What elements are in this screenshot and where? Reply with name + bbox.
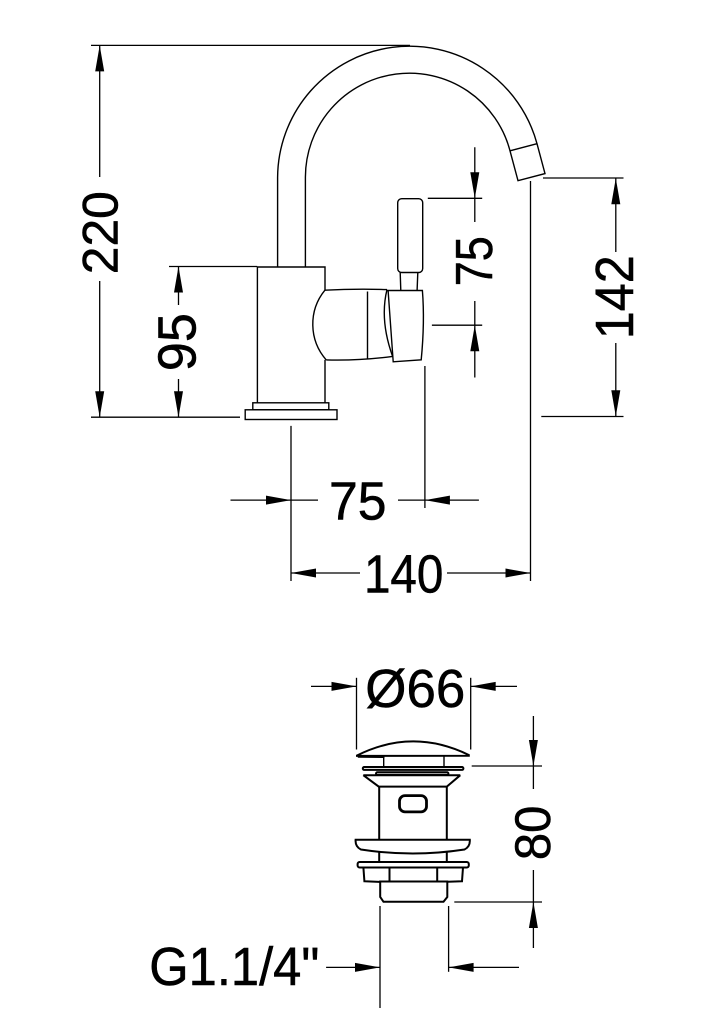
svg-text:140: 140	[364, 545, 444, 605]
svg-text:142: 142	[585, 255, 645, 339]
svg-text:75: 75	[329, 472, 387, 532]
svg-text:75: 75	[446, 236, 504, 286]
svg-text:95: 95	[148, 313, 208, 371]
svg-text:220: 220	[73, 191, 129, 274]
svg-text:80: 80	[505, 806, 561, 861]
svg-text:G1.1/4": G1.1/4"	[149, 937, 319, 997]
svg-text:Ø66: Ø66	[365, 659, 465, 719]
